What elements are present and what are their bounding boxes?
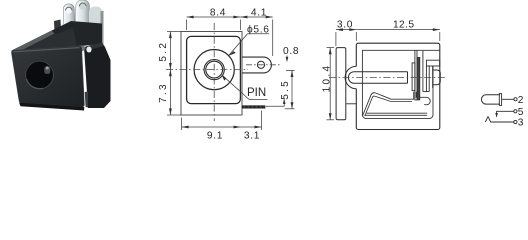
dimension 4.1 <box>240 17 272 56</box>
svg-text:4.1: 4.1 <box>251 8 267 19</box>
svg-text:3: 3 <box>518 118 524 129</box>
front view: pin ring inner <box>206 61 223 78</box>
photo: top-left chamfer highlight <box>11 31 55 55</box>
photo: gap strip between face and block <box>85 92 88 108</box>
front view: outer circle <box>194 50 234 90</box>
dimension 3.0 <box>336 30 356 46</box>
dimension 8.4 <box>187 17 241 30</box>
photo: rear right block <box>84 43 111 109</box>
photo: front face <box>12 46 85 107</box>
front view: vertical centerline <box>213 23 215 121</box>
svg-text:12.5: 12.5 <box>393 19 414 30</box>
side view: plate riser from top <box>422 51 424 92</box>
front view: body face <box>187 36 241 103</box>
side view: spring inner line <box>365 96 412 116</box>
side view: plate box at top <box>426 60 439 66</box>
side view: inner cavity <box>362 50 439 118</box>
pin leader with up arrow <box>266 100 284 107</box>
dimension 7.3 <box>167 70 181 115</box>
schematic: terminal circle 2 <box>514 98 517 101</box>
svg-text:3.1: 3.1 <box>244 131 260 142</box>
side view: flange <box>336 48 346 120</box>
side view: terminal plate A <box>412 63 415 91</box>
svg-text:5: 5 <box>518 107 524 118</box>
schematic: wire to terminal 3 with spring chevron <box>485 117 514 122</box>
schematic: terminal circle 5 <box>514 110 517 113</box>
svg-text:10.4: 10.4 <box>321 64 332 93</box>
svg-text:8.4: 8.4 <box>210 8 226 19</box>
dimension 3.1 <box>241 111 262 131</box>
schematic: plug capsule pin 2 <box>481 95 500 104</box>
photo: rear block top bevel <box>84 43 104 51</box>
schematic: terminal circle 3 <box>514 120 517 123</box>
photo: solder lug 3 bright <box>89 7 102 51</box>
photo: top face slope band <box>12 28 77 51</box>
side view: terminal plate B riser pair <box>415 50 417 100</box>
dimension 5.5 <box>285 70 295 108</box>
front view: side tab hole <box>257 61 264 68</box>
photo: hole rim ring <box>26 61 54 89</box>
photo: edge-on lug at left <box>54 20 62 45</box>
svg-text:5.2: 5.2 <box>158 41 169 62</box>
front view: tab centerline <box>246 64 281 66</box>
side view: lower support ledge <box>346 103 356 105</box>
side view: spring contact <box>363 92 431 116</box>
side view: centerline <box>329 77 445 79</box>
side view: rear plate lines <box>425 66 427 92</box>
photo: center pin inside hole <box>44 66 50 74</box>
dimension 10.4 <box>327 48 335 120</box>
side view: center pin <box>348 72 407 84</box>
photo: face top bevel highlight <box>14 48 80 52</box>
side view: nose bulge <box>345 66 356 89</box>
schematic: wire to terminal 5 with switch arrow <box>497 111 514 115</box>
photo: solder lug 2 <box>75 0 89 32</box>
svg-text:5.5: 5.5 <box>280 79 291 100</box>
svg-text:0.8: 0.8 <box>283 46 299 57</box>
front view: bottom pin bar <box>242 105 265 108</box>
photo: washer bright spot <box>86 47 91 53</box>
photo: barrel hole <box>25 60 54 89</box>
schematic: wire to terminal 2 <box>502 98 514 100</box>
dimension 9.1 <box>182 118 241 131</box>
front view: horizontal centerline <box>166 69 248 71</box>
front view: side tab <box>242 57 271 73</box>
photo: solder lug 1 <box>63 4 75 37</box>
photo: bottom bevel <box>19 103 84 111</box>
dimension 5.2 <box>167 32 181 70</box>
dimension 12.5 <box>356 30 440 41</box>
svg-text:2: 2 <box>518 95 524 106</box>
svg-text:3.0: 3.0 <box>337 19 353 30</box>
schematic: plug bar <box>499 94 501 106</box>
svg-text:PIN: PIN <box>247 87 266 99</box>
side view: rear knob <box>433 66 441 88</box>
photo: washer gray blob <box>73 45 86 53</box>
front view: outer outline <box>181 32 242 116</box>
photo: jack body top wedge <box>12 21 103 51</box>
front view: pin ring outer <box>204 60 224 80</box>
side view: bottom contact plate <box>365 113 428 115</box>
svg-text:7.3: 7.3 <box>158 82 169 103</box>
side view: plate B dark bar <box>417 57 420 100</box>
svg-text:9.1: 9.1 <box>207 131 223 142</box>
side view: body outline <box>356 43 440 129</box>
